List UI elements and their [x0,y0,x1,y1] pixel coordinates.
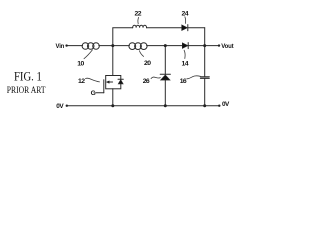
svg-text:26: 26 [143,78,150,85]
svg-text:0V: 0V [56,103,64,110]
svg-text:FIG. 1: FIG. 1 [14,69,42,84]
svg-text:PRIOR ART: PRIOR ART [7,85,46,96]
svg-text:10: 10 [77,60,84,67]
svg-text:22: 22 [135,10,142,17]
svg-text:Vout: Vout [221,44,233,50]
svg-text:16: 16 [180,78,187,85]
svg-text:Vin: Vin [56,44,65,50]
svg-text:0V: 0V [222,101,230,108]
svg-text:24: 24 [182,10,189,17]
svg-text:20: 20 [144,60,151,67]
svg-text:12: 12 [78,78,85,85]
svg-text:G: G [91,90,96,97]
svg-text:14: 14 [182,60,189,67]
